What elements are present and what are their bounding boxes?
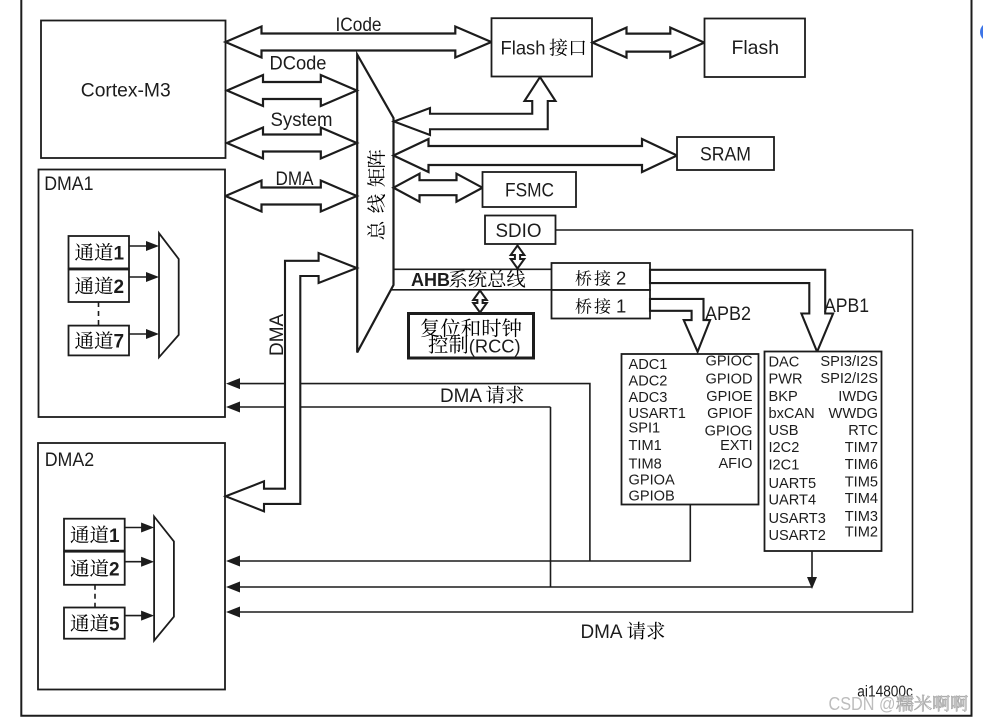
arrow Flash interface to Flash [593, 28, 705, 58]
block DMA1 [39, 170, 226, 418]
svg-text:DMA: DMA [276, 169, 314, 190]
block SDIO [485, 216, 556, 245]
wire channel to mux [125, 615, 142, 617]
svg-text:AHB: AHB [411, 270, 450, 290]
mux DMA2 [154, 517, 174, 641]
svg-text:GPIOA: GPIOA [629, 473, 675, 489]
svg-text:2: 2 [109, 559, 120, 580]
svg-text:GPIOC: GPIOC [705, 354, 752, 370]
svg-text:FSMC: FSMC [505, 180, 554, 202]
svg-text:DMA: DMA [581, 621, 623, 643]
block DMA2 [38, 443, 225, 690]
svg-text:DAC: DAC [769, 354, 800, 370]
svg-text:PWR: PWR [769, 372, 803, 388]
wire branch to DMA1 (request line 2a) [550, 407, 552, 587]
svg-text:5: 5 [109, 614, 120, 635]
bus arrow DMA (DMA1 to matrix) [226, 181, 357, 212]
svg-text:System: System [271, 110, 333, 131]
arrow bridge2 to APB1 peripherals [650, 270, 833, 352]
svg-text:I2C2: I2C2 [769, 440, 800, 456]
svg-text:ADC3: ADC3 [629, 390, 668, 406]
svg-text:TIM3: TIM3 [845, 509, 878, 525]
arrow bridge1 to APB2 peripherals [650, 299, 710, 352]
block Flash 接口 [492, 18, 593, 76]
svg-text:BKP: BKP [769, 389, 798, 405]
bus arrow System [227, 128, 357, 159]
svg-text:TIM8: TIM8 [629, 457, 662, 473]
svg-text:DMA1: DMA1 [44, 173, 93, 195]
block DMA2 channel 1 [64, 519, 125, 551]
wire APB2 box to DMA2 (request line 1) [236, 505, 690, 562]
svg-text:1: 1 [109, 526, 120, 547]
svg-text:UART5: UART5 [769, 476, 817, 492]
svg-text:TIM1: TIM1 [629, 438, 662, 454]
svg-text:USART3: USART3 [769, 511, 826, 527]
block Cortex-M3 [41, 21, 226, 159]
svg-text:USB: USB [769, 423, 799, 439]
svg-text:DMA: DMA [267, 313, 288, 356]
bent arrow bus matrix to DMA2 [226, 253, 357, 511]
svg-text:SPI3/I2S: SPI3/I2S [820, 354, 878, 370]
svg-text:2: 2 [616, 268, 626, 289]
arrow bus matrix to FSMC [394, 174, 483, 202]
svg-text:2: 2 [114, 277, 125, 298]
svg-text:I2C1: I2C1 [769, 457, 800, 473]
block SRAM [677, 137, 774, 170]
svg-text:APB2: APB2 [705, 304, 751, 325]
svg-text:SRAM: SRAM [700, 144, 751, 166]
block APB2 peripherals [622, 354, 759, 505]
wire branch to DMA1 (request line 1a) [236, 384, 590, 561]
svg-text:1: 1 [114, 243, 125, 264]
svg-text:ADC2: ADC2 [629, 374, 668, 390]
svg-text:(RCC): (RCC) [469, 336, 521, 357]
svg-text:EXTI: EXTI [720, 438, 752, 454]
wire AHB system bus lower line [390, 289, 552, 291]
svg-text:Flash: Flash [501, 38, 546, 60]
svg-text:GPIOB: GPIOB [629, 489, 675, 505]
block DMA2 channel 5 [64, 608, 125, 639]
svg-text:1: 1 [616, 296, 626, 317]
svg-text:SPI2/I2S: SPI2/I2S [820, 371, 878, 387]
block Flash [705, 19, 806, 78]
block DMA1 channel 1 [69, 236, 130, 268]
wire AHB system bus upper line [392, 268, 552, 270]
svg-text:ICode: ICode [336, 15, 382, 36]
svg-text:GPIOF: GPIOF [707, 406, 752, 422]
arrow SDIO to AHB bus [511, 246, 525, 269]
bus arrow ICode [226, 27, 492, 58]
block DMA1 channel 2 [69, 270, 130, 303]
wire APB1 box to DMA2 (request line 2) [811, 551, 813, 578]
arrow bus matrix to SRAM [394, 139, 678, 172]
wire channel to mux [129, 333, 147, 335]
block DMA2 channel 2 [64, 552, 125, 585]
svg-text:SPI1: SPI1 [629, 421, 661, 437]
svg-text:AFIO: AFIO [718, 456, 752, 472]
bent arrow bus matrix to Flash interface [394, 77, 556, 135]
dashed line DMA2 channels [94, 585, 96, 608]
svg-text:GPIOE: GPIOE [706, 389, 752, 405]
svg-text:Cortex-M3: Cortex-M3 [81, 80, 171, 102]
svg-text:DCode: DCode [270, 54, 327, 75]
svg-text:TIM4: TIM4 [845, 491, 878, 507]
svg-text:WWDG: WWDG [829, 406, 878, 422]
svg-text:RTC: RTC [848, 423, 878, 439]
svg-text:Flash: Flash [732, 37, 780, 59]
svg-text:ADC1: ADC1 [629, 357, 668, 373]
svg-text:SDIO: SDIO [496, 220, 542, 242]
bus matrix 总线矩阵 [357, 55, 393, 353]
svg-text:CSDN @: CSDN @ [829, 694, 896, 714]
wire channel to mux [129, 276, 147, 278]
svg-text:7: 7 [114, 332, 125, 353]
svg-text:TIM6: TIM6 [845, 457, 878, 473]
svg-text:IWDG: IWDG [838, 389, 878, 405]
arrow AHB bus to RCC [473, 291, 487, 313]
svg-text:UART4: UART4 [769, 492, 817, 508]
wire channel to mux [125, 527, 142, 529]
svg-text:TIM2: TIM2 [845, 525, 878, 541]
svg-text:TIM5: TIM5 [845, 475, 878, 491]
svg-text:GPIOD: GPIOD [705, 371, 752, 387]
block APB1 peripherals [765, 352, 882, 552]
svg-text:TIM7: TIM7 [845, 440, 878, 456]
block 桥接2 (bridge 2) [552, 263, 651, 290]
block 桥接1 (bridge 1) [552, 290, 651, 319]
block FSMC [483, 172, 577, 207]
bus arrow DCode [227, 75, 357, 106]
block RCC 复位和时钟控制 [409, 314, 534, 359]
svg-text:USART2: USART2 [769, 528, 826, 544]
dashed line DMA1 channels [98, 302, 100, 326]
block DMA1 channel 7 [69, 326, 130, 356]
wire SDIO to DMA2 request loop [236, 230, 913, 612]
wire channel to mux [125, 561, 142, 563]
blue circle decoration [980, 23, 983, 42]
svg-text:DMA2: DMA2 [45, 449, 94, 471]
wire channel to mux [129, 245, 147, 247]
svg-text:APB1: APB1 [824, 296, 869, 317]
svg-text:bxCAN: bxCAN [769, 406, 815, 422]
mux DMA1 [159, 233, 179, 357]
svg-text:DMA: DMA [440, 385, 482, 407]
